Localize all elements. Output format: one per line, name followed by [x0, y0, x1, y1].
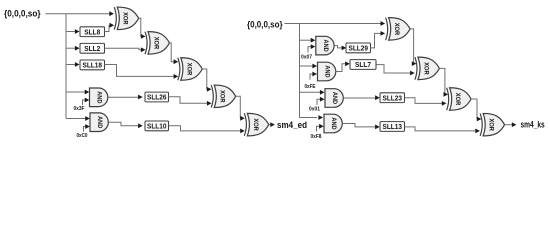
svg-text:SLL26: SLL26 — [147, 93, 167, 102]
svg-text:XOR: XOR — [153, 37, 160, 50]
wire XOR4R output — [505, 122, 517, 127]
and-gate AND1 right — [316, 36, 334, 55]
wire branch to SLL2 — [66, 46, 80, 51]
wire branch to AND2R — [300, 64, 318, 69]
wire AND4R to SLL13 — [343, 124, 380, 130]
svg-text:0x07: 0x07 — [301, 55, 312, 61]
wire SLL10 to XOR5 — [169, 126, 245, 134]
svg-text:0xFE: 0xFE — [305, 84, 316, 90]
wire right vertical bus — [300, 24, 318, 118]
svg-text:SLL2: SLL2 — [84, 44, 100, 53]
xor-gate XOR2 left — [145, 32, 170, 55]
xor-gate XOR4 left — [211, 85, 236, 108]
svg-text:SLL18: SLL18 — [83, 61, 103, 70]
wire SLL18 to XOR3 — [105, 65, 179, 79]
xor-gate XOR4 right — [480, 113, 505, 136]
wire SLL29 to XOR1R — [371, 31, 386, 48]
svg-text:XOR: XOR — [252, 118, 259, 131]
wire XOR1R to XOR2R — [410, 29, 416, 66]
svg-text:{0,0,0,so}: {0,0,0,so} — [4, 8, 41, 18]
svg-text:XOR: XOR — [219, 90, 226, 103]
wire AND1R to SLL29 — [334, 46, 346, 51]
wire XOR5 output — [269, 122, 275, 127]
svg-text:XOR: XOR — [393, 23, 400, 36]
svg-text:XOR: XOR — [122, 12, 129, 25]
shifter SLL13 — [380, 122, 405, 132]
xor-gate XOR3 left — [178, 58, 203, 81]
svg-text:{0,0,0,so}: {0,0,0,so} — [247, 20, 283, 30]
svg-text:XOR: XOR — [185, 63, 192, 76]
wire SLL13 to XOR4R — [405, 127, 480, 133]
wire XOR2 to XOR3 — [170, 43, 179, 64]
xor-gate XOR1 left — [114, 7, 139, 30]
svg-text:0x3F: 0x3F — [74, 106, 86, 112]
wire SLL7 to XOR2R — [377, 65, 415, 76]
svg-text:SLL8: SLL8 — [84, 27, 100, 36]
wire branch to AND1 — [66, 90, 89, 95]
shifter SLL8 — [80, 27, 105, 37]
svg-text:0xC0: 0xC0 — [77, 133, 88, 139]
wire XOR4 to XOR5 — [236, 96, 245, 120]
wire AND2 to SLL10 — [109, 122, 143, 128]
and-gate AND2 left — [90, 113, 108, 132]
wire branch to SLL8 — [66, 29, 80, 34]
svg-text:SLL23: SLL23 — [383, 93, 403, 102]
shifter SLL2 — [80, 43, 105, 53]
svg-text:sm4_ed: sm4_ed — [277, 120, 307, 130]
svg-text:XOR: XOR — [422, 62, 429, 75]
wire AND3R to SLL23 — [343, 95, 379, 100]
shifter SLL29 — [346, 43, 371, 53]
constant stub 0x3F — [83, 98, 90, 105]
and-gate AND2 right — [318, 62, 336, 81]
wire SLL23 to XOR3R — [405, 98, 446, 106]
wire branch to AND3R — [300, 90, 325, 95]
and-gate AND1 left — [90, 88, 108, 107]
xor-gate XOR3 right — [447, 88, 472, 111]
wire XOR3 to XOR4 — [202, 69, 211, 92]
wire left vertical bus — [65, 14, 67, 119]
shifter SLL10 — [145, 121, 169, 131]
wire SLL2 to XOR2 — [105, 47, 146, 52]
constant stub 0xFE — [310, 72, 317, 80]
wire SLL8 to XOR1 — [105, 23, 115, 32]
wire branch to AND1R — [300, 38, 316, 43]
svg-text:AND: AND — [330, 117, 337, 130]
xor-gate XOR5 left — [244, 113, 268, 136]
svg-text:0x01: 0x01 — [309, 107, 320, 113]
constant stub 0xC0 — [84, 124, 90, 131]
and-gate AND4 right — [324, 114, 342, 133]
wire left input to XOR1 — [46, 11, 114, 16]
svg-text:AND: AND — [322, 40, 329, 53]
wire XOR3R to XOR4R — [471, 99, 481, 121]
constant stub 0xF8 — [317, 124, 324, 132]
shifter SLL18 — [80, 60, 105, 70]
shifter SLL26 — [145, 92, 169, 102]
wire AND2R to SLL7 — [336, 61, 350, 71]
wire XOR2R to XOR3R — [439, 68, 448, 96]
svg-text:AND: AND — [324, 65, 331, 78]
svg-text:sm4_ks: sm4_ks — [521, 120, 545, 130]
svg-text:SLL10: SLL10 — [147, 122, 167, 131]
constant stub 0x01 — [317, 97, 325, 105]
and-gate AND3 right — [325, 89, 343, 108]
svg-text:AND: AND — [96, 91, 103, 104]
arrowhead bus to AND4R — [318, 115, 323, 120]
svg-text:XOR: XOR — [488, 119, 495, 132]
svg-text:AND: AND — [96, 116, 103, 129]
wire SLL26 to XOR4 — [169, 97, 212, 106]
xor-gate XOR1 right — [386, 18, 411, 41]
wire AND1 to SLL26 — [108, 95, 143, 100]
svg-text:0xF8: 0xF8 — [311, 134, 322, 140]
svg-text:AND: AND — [331, 92, 338, 105]
wire XOR1 to XOR2 — [139, 18, 146, 39]
svg-text:XOR: XOR — [454, 93, 461, 106]
shifter SLL7 — [350, 60, 376, 70]
xor-gate XOR2 right — [415, 57, 440, 80]
svg-text:SLL7: SLL7 — [355, 60, 371, 69]
wire right input to XOR1R — [285, 21, 386, 26]
svg-text:SLL13: SLL13 — [383, 122, 403, 131]
wire branch to SLL18 — [66, 62, 80, 67]
constant stub 0x07 — [308, 44, 315, 52]
wire branch to AND2 — [66, 116, 90, 121]
svg-text:SLL29: SLL29 — [349, 44, 369, 53]
shifter SLL23 — [380, 93, 405, 103]
